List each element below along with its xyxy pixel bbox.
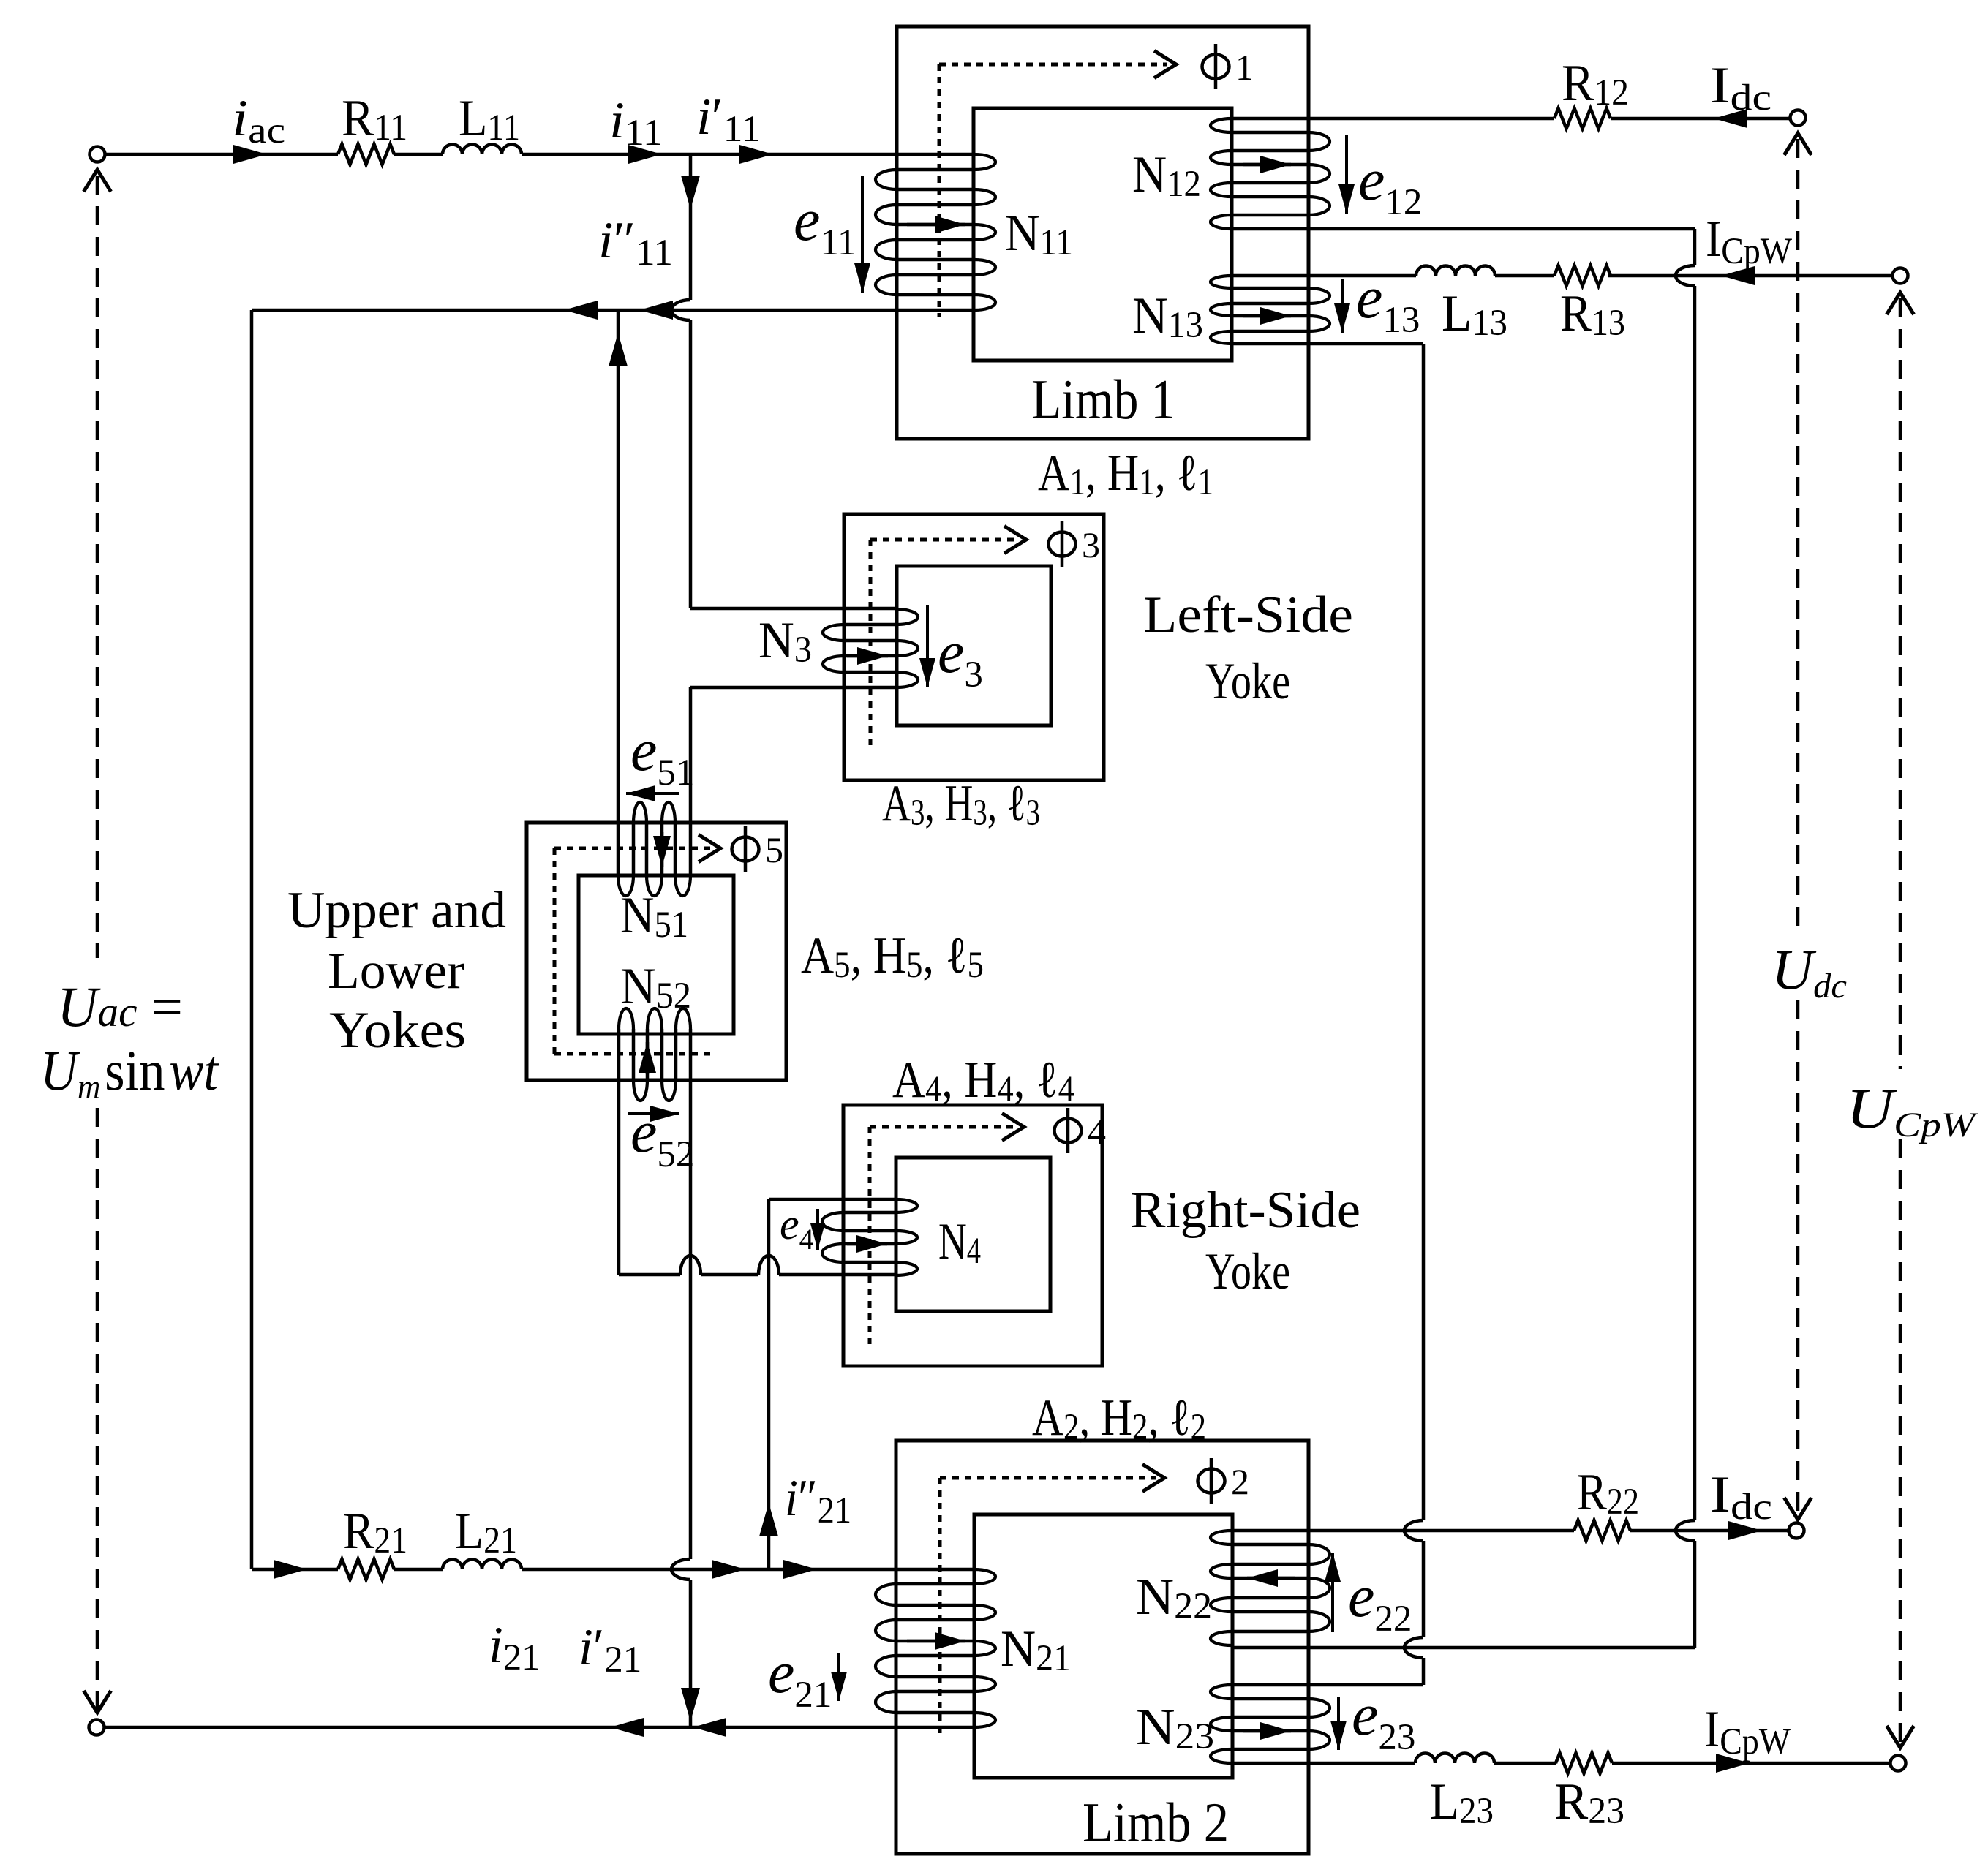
svg-text:5: 5 (765, 829, 783, 870)
svg-text:1: 1 (1235, 47, 1254, 88)
svg-text:A1, H1, ℓ1: A1, H1, ℓ1 (1038, 445, 1213, 503)
svg-text:A5, H5, ℓ5: A5, H5, ℓ5 (801, 927, 984, 986)
svg-text:A3, H3, ℓ3: A3, H3, ℓ3 (882, 775, 1040, 834)
svg-text:3: 3 (1082, 524, 1100, 565)
svg-text:2: 2 (1231, 1461, 1249, 1502)
svg-text:A2, H2, ℓ2: A2, H2, ℓ2 (1032, 1389, 1206, 1448)
svg-text:Yoke: Yoke (1205, 1243, 1290, 1300)
svg-text:Upper and: Upper and (287, 882, 506, 939)
svg-text:Limb 2: Limb 2 (1083, 1791, 1229, 1854)
svg-text:A4, H4, ℓ4: A4, H4, ℓ4 (892, 1052, 1074, 1110)
svg-text:Lower: Lower (328, 943, 464, 1000)
svg-text:Left-Side: Left-Side (1143, 586, 1353, 644)
svg-text:Limb 1: Limb 1 (1031, 368, 1175, 431)
svg-text:Right-Side: Right-Side (1130, 1182, 1360, 1239)
svg-text:4: 4 (1088, 1111, 1106, 1152)
svg-text:Um sin wt: Um sin wt (40, 1038, 219, 1106)
svg-text:Yoke: Yoke (1205, 653, 1290, 710)
svg-text:Yokes: Yokes (329, 1002, 466, 1059)
